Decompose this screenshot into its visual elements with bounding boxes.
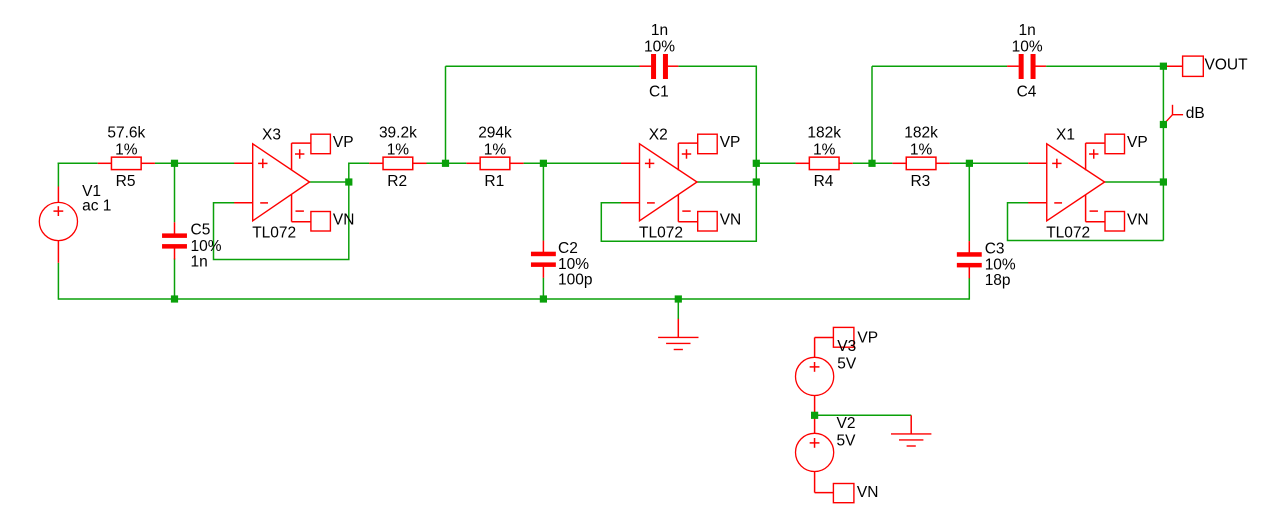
C3 node junction — [966, 160, 973, 167]
svg-text:VN: VN — [1127, 212, 1149, 229]
port VOUT — [1163, 56, 1248, 76]
node A junction — [171, 160, 178, 167]
capacitor C2 100p 10% — [531, 240, 593, 289]
svg-text:VOUT: VOUT — [1205, 57, 1249, 74]
svg-text:1%: 1% — [484, 141, 507, 158]
svg-text:294k: 294k — [478, 125, 512, 142]
resistor R4 182k 1% — [796, 125, 853, 191]
svg-text:V2: V2 — [837, 415, 856, 432]
svg-text:1%: 1% — [813, 141, 836, 158]
svg-text:10%: 10% — [985, 257, 1016, 274]
wire X3 output — [309, 181, 349, 183]
svg-text:18p: 18p — [985, 272, 1011, 289]
svg-text:1%: 1% — [115, 141, 138, 158]
supply mid junction — [811, 412, 818, 419]
svg-text:1%: 1% — [910, 141, 933, 158]
svg-text:182k: 182k — [807, 125, 841, 142]
svg-text:R1: R1 — [484, 173, 504, 190]
wire ground stub — [677, 299, 679, 319]
wire node D to C4 — [872, 65, 1007, 67]
svg-text:ac 1: ac 1 — [82, 198, 111, 215]
svg-text:10%: 10% — [1012, 39, 1043, 56]
node D junction — [868, 160, 875, 167]
wire X2 output — [697, 181, 757, 183]
svg-text:V3: V3 — [837, 338, 856, 355]
wire C1 to node C riser — [601, 66, 756, 241]
svg-text:VN: VN — [333, 212, 355, 229]
X1 output junction — [1160, 178, 1167, 185]
op-amp X3 TL072 — [234, 127, 354, 242]
port VP (supply) — [815, 327, 878, 357]
wire R1 to C2 node — [524, 162, 621, 164]
C5 bottom junction — [171, 295, 178, 302]
svg-text:10%: 10% — [644, 39, 675, 56]
wire node C to R4 — [756, 162, 796, 164]
svg-text:10%: 10% — [191, 238, 222, 255]
capacitor C1 1n 10% — [640, 22, 679, 101]
wire V1 bottom segment — [57, 263, 59, 300]
svg-text:182k: 182k — [904, 125, 938, 142]
svg-text:5V: 5V — [837, 433, 857, 450]
wire C5 to bottom rail — [174, 259, 176, 300]
ground — [891, 415, 931, 446]
svg-text:TL072: TL072 — [252, 225, 296, 242]
svg-text:TL072: TL072 — [1046, 225, 1090, 242]
wire C3 top segment — [968, 163, 970, 241]
voltage source V2 5V — [796, 415, 857, 472]
svg-text:C3: C3 — [985, 240, 1005, 257]
probe dB — [1164, 105, 1205, 124]
svg-text:57.6k: 57.6k — [107, 125, 145, 142]
svg-text:C2: C2 — [558, 240, 578, 257]
svg-text:X1: X1 — [1056, 127, 1075, 144]
C2 node junction — [540, 160, 547, 167]
node C output junction — [753, 178, 760, 185]
wire R2 to node B — [427, 162, 467, 164]
wire X3 feedback — [214, 163, 370, 259]
svg-text:X3: X3 — [262, 127, 281, 144]
wire VOUT node riser — [1162, 66, 1164, 240]
voltage source V1 — [39, 183, 111, 263]
ground junction — [675, 295, 682, 302]
ground — [658, 319, 698, 350]
wire C4 to VOUT node — [1046, 65, 1163, 67]
resistor R1 294k 1% — [466, 125, 523, 191]
svg-text:R5: R5 — [116, 173, 136, 190]
X3 output junction — [345, 178, 352, 185]
capacitor C3 18p 10% — [957, 240, 1016, 289]
svg-text:VP: VP — [333, 134, 354, 151]
C2 bottom junction — [540, 295, 547, 302]
wire C2 to bottom rail — [542, 278, 544, 299]
svg-text:C4: C4 — [1017, 84, 1037, 101]
resistor R3 182k 1% — [893, 125, 950, 191]
svg-text:1n: 1n — [651, 22, 668, 39]
wire V1 top segment — [57, 163, 59, 187]
svg-text:TL072: TL072 — [639, 225, 683, 242]
port VN (supply) — [815, 472, 879, 503]
svg-text:5V: 5V — [837, 356, 857, 373]
wire node A to C5 — [174, 163, 176, 222]
wire supply node to ground — [815, 414, 912, 416]
VOUT junction — [1160, 63, 1167, 70]
svg-text:R4: R4 — [814, 173, 834, 190]
wire C3 to bottom rail — [968, 278, 970, 300]
wire X1 output — [1104, 181, 1163, 183]
svg-text:VN: VN — [857, 484, 879, 501]
resistor R5 57.6k 1% — [98, 125, 155, 191]
wire node B feedback riser — [445, 66, 447, 163]
svg-text:10%: 10% — [558, 256, 589, 273]
svg-text:VN: VN — [720, 212, 742, 229]
op-amp X2 TL072 — [621, 127, 741, 242]
resistor R2 39.2k 1% — [369, 125, 426, 191]
op-amp X1 TL072 — [1028, 127, 1148, 242]
svg-text:X2: X2 — [649, 127, 668, 144]
svg-text:VP: VP — [1127, 134, 1148, 151]
svg-text:R3: R3 — [910, 173, 930, 190]
wire R5 to node A — [155, 162, 235, 164]
svg-text:R2: R2 — [387, 173, 407, 190]
svg-text:39.2k: 39.2k — [379, 125, 417, 142]
svg-text:VP: VP — [720, 134, 741, 151]
wire node D feedback riser — [871, 66, 873, 163]
svg-text:C5: C5 — [191, 222, 211, 239]
wire C2 top segment — [542, 163, 544, 240]
wire node B to C1 — [446, 65, 640, 67]
svg-text:1n: 1n — [191, 253, 208, 270]
svg-text:VP: VP — [857, 330, 878, 347]
wire R4 to node D — [853, 162, 893, 164]
node B junction — [442, 160, 449, 167]
node C main junction — [753, 160, 760, 167]
dB junction — [1160, 121, 1167, 128]
voltage source V3 5V — [796, 338, 857, 412]
wire V1 to R5 — [58, 162, 98, 164]
svg-text:1n: 1n — [1018, 22, 1035, 39]
capacitor C4 1n 10% — [1007, 22, 1046, 101]
svg-text:100p: 100p — [558, 272, 592, 289]
wire main bottom rail — [58, 298, 969, 300]
svg-text:1%: 1% — [387, 141, 410, 158]
capacitor C5 1n 10% — [162, 222, 222, 271]
svg-text:C1: C1 — [649, 84, 669, 101]
wire R3 to C3 node — [950, 162, 1029, 164]
wire X1 feedback — [1008, 203, 1164, 241]
svg-text:dB: dB — [1186, 105, 1205, 122]
